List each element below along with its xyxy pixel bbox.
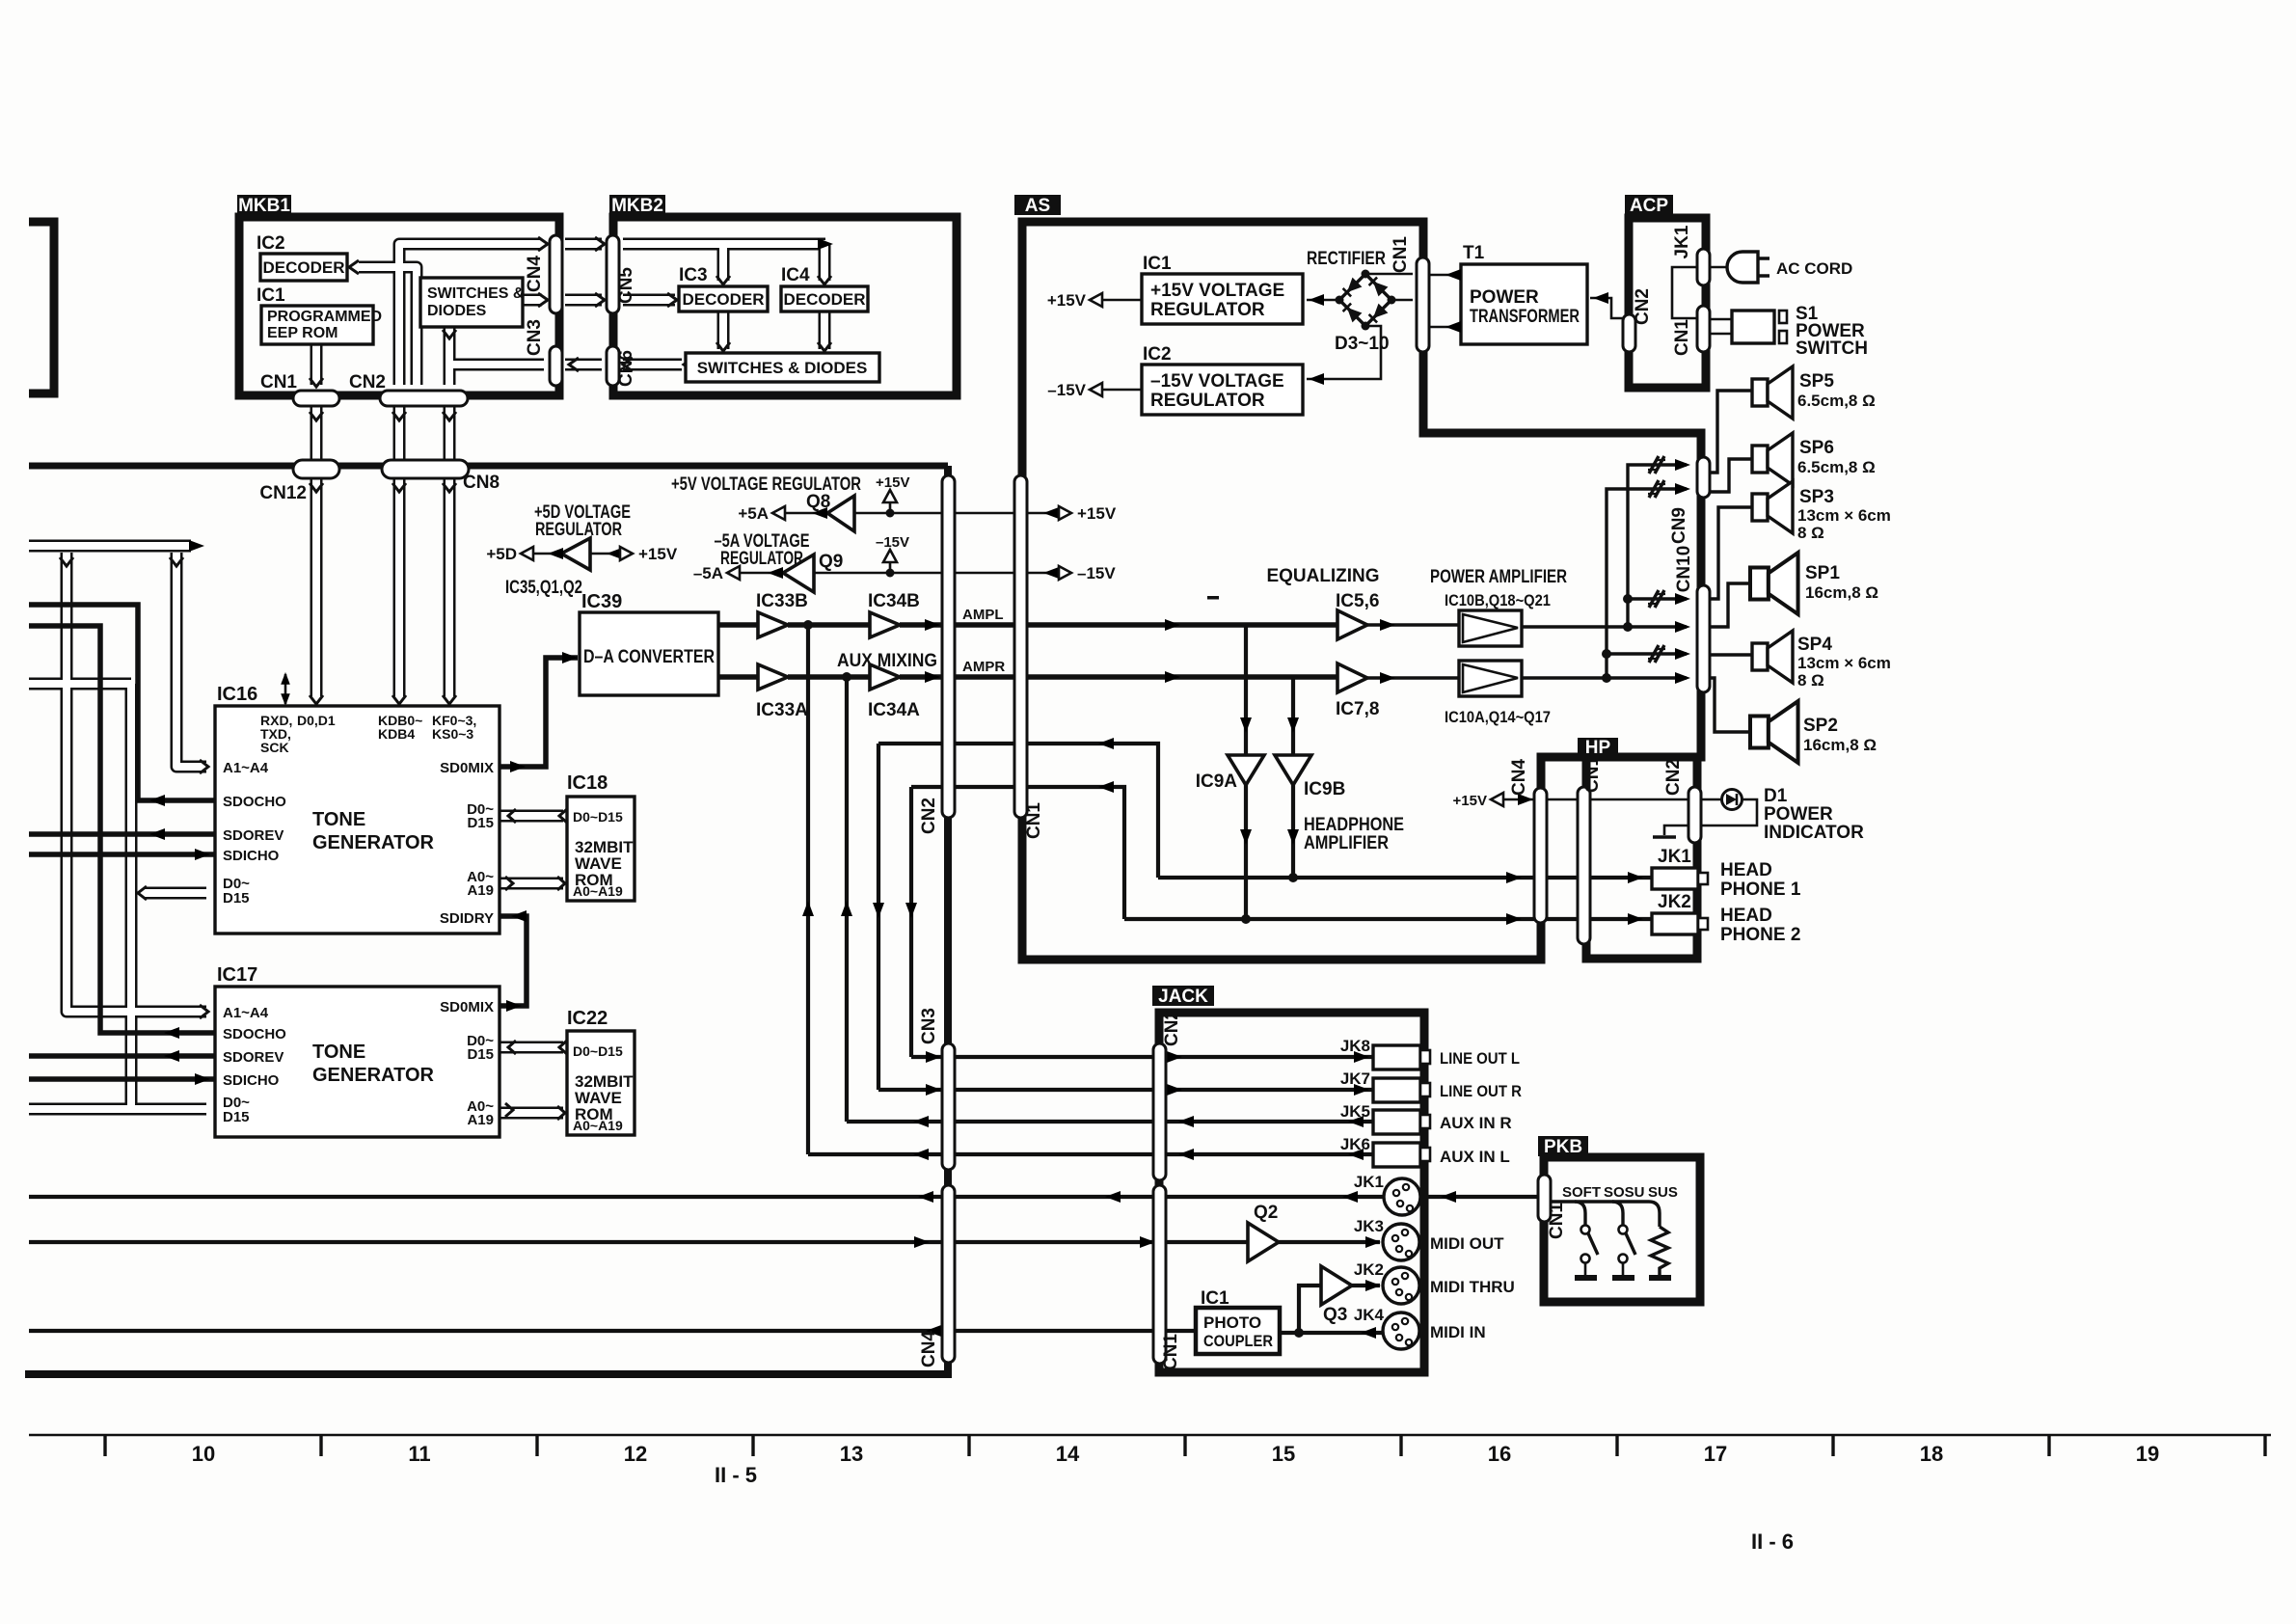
svg-text:SDOCHO: SDOCHO [223, 794, 286, 810]
JACK tag [1152, 986, 1214, 1006]
svg-text:CN4: CN4 [919, 1331, 939, 1367]
SP5 feed wire [1708, 391, 1752, 473]
svg-text:D15: D15 [223, 890, 250, 907]
svg-text:T1: T1 [1463, 243, 1485, 263]
aux in L riser [806, 625, 810, 1154]
ruler tick 14/15 [1183, 1435, 1186, 1456]
connector CN2 capsule (HP) [1688, 787, 1701, 843]
svg-text:+5A: +5A [738, 504, 769, 523]
connector CN1 capsule (JACK) [1153, 1185, 1166, 1364]
IC18 wave rom box [567, 797, 635, 901]
ACP internal wire JK1-CN1 [1672, 267, 1697, 318]
main board bottom edge [25, 1370, 952, 1378]
svg-text:JK1: JK1 [1658, 847, 1691, 867]
svg-text:LINE OUT L: LINE OUT L [1440, 1049, 1520, 1068]
svg-text:SOFT: SOFT [1562, 1184, 1601, 1201]
svg-text:+15V: +15V [876, 474, 909, 491]
bus chevrons below CN12/CN8 [310, 483, 323, 492]
ruler tick 12/13 [751, 1435, 754, 1456]
MKB2 block [613, 217, 957, 395]
ruler baseline [29, 1434, 2271, 1437]
svg-text:IC16: IC16 [217, 684, 257, 705]
SP1 feed wire [1708, 583, 1750, 627]
svg-text:CN2: CN2 [1162, 1010, 1182, 1046]
svg-text:A19: A19 [467, 1112, 494, 1128]
svg-text:13cm × 6cm: 13cm × 6cm [1797, 654, 1891, 672]
main board top edge [29, 463, 948, 470]
bus chevrons D0/A0 buses [508, 809, 516, 823]
svg-text:COUPLER: COUPLER [1203, 1332, 1273, 1350]
svg-text:SP3: SP3 [1799, 487, 1834, 507]
wire RXD TXD SCK stub [284, 674, 287, 704]
wire line-out L return row [911, 787, 1124, 919]
regulator IC35,Q1,Q2 triangle [561, 538, 590, 570]
HP ground stub [1664, 826, 1688, 835]
svg-text:19: 19 [2136, 1442, 2159, 1466]
row MIDI IN [29, 1329, 1199, 1333]
chevrons MKB row 311 [538, 293, 548, 307]
line out R dropper [877, 744, 880, 1090]
svg-text:–15V: –15V [1077, 564, 1116, 582]
svg-text:SP4: SP4 [1797, 635, 1832, 655]
svg-text:AMPL: AMPL [962, 607, 1004, 623]
svg-text:IC10A,Q14~Q17: IC10A,Q14~Q17 [1445, 708, 1551, 726]
svg-text:15: 15 [1272, 1442, 1295, 1466]
svg-text:IC2: IC2 [1143, 344, 1172, 365]
line out L dropper [909, 787, 913, 1057]
soft switch [1575, 1202, 1585, 1225]
wire SDOCHO IC16 from page-left [29, 605, 214, 800]
bus: CN5 to IC3 [623, 294, 675, 307]
svg-text:SP2: SP2 [1803, 716, 1838, 736]
chevrons IC3/IC4 to switches [716, 342, 730, 351]
ACP block [1629, 218, 1706, 388]
MKB bus outlines (white) [359, 244, 825, 385]
svg-text:IC39: IC39 [581, 591, 622, 612]
Q3 feed from midi in [1299, 1286, 1321, 1333]
svg-text:MIDI IN: MIDI IN [1430, 1323, 1486, 1341]
svg-text:SDOREV: SDOREV [223, 827, 284, 844]
svg-text:AMPLIFIER: AMPLIFIER [1304, 833, 1389, 853]
svg-text:16cm,8 Ω: 16cm,8 Ω [1803, 736, 1877, 754]
bus chevrons MKB row 253 [538, 237, 548, 251]
svg-text:8 Ω: 8 Ω [1797, 524, 1824, 542]
row JK7 line out R [878, 1088, 1373, 1092]
svg-text:RECTIFIER: RECTIFIER [1307, 249, 1386, 269]
bus: switches&diodes down bus [444, 327, 456, 385]
-5A output [740, 572, 783, 575]
ruler tick 9/10 [103, 1435, 106, 1456]
svg-text:AS: AS [1025, 196, 1050, 216]
svg-text:GENERATOR: GENERATOR [312, 832, 434, 853]
svg-text:DECODER: DECODER [682, 290, 764, 309]
connector CN2 capsule (ACP) [1623, 314, 1635, 352]
wire SDOREV IC17 [29, 1053, 214, 1059]
connector CN1 capsule (AS left) [1014, 475, 1027, 818]
Q9 triangle [783, 555, 814, 592]
svg-text:IC3: IC3 [679, 265, 708, 285]
bus chevrons below CN1/CN2 [310, 412, 323, 420]
svg-text:CN4: CN4 [1509, 759, 1529, 796]
svg-text:10: 10 [192, 1442, 215, 1466]
ruler tick right [2263, 1435, 2266, 1456]
svg-text:D0,D1: D0,D1 [297, 713, 336, 728]
svg-text:6.5cm,8 Ω: 6.5cm,8 Ω [1797, 458, 1876, 476]
svg-text:A0~A19: A0~A19 [573, 883, 623, 899]
svg-text:CN1: CN1 [1161, 1334, 1181, 1370]
svg-text:IC33A: IC33A [756, 700, 808, 720]
speaker branch riser B [1607, 489, 1687, 678]
IC16 tone generator box [215, 706, 500, 934]
svg-text:D15: D15 [223, 1109, 250, 1125]
svg-text:13: 13 [840, 1442, 863, 1466]
wire Q8 to +15V rail [854, 512, 1051, 515]
+15V feed to HP [1503, 798, 1688, 801]
svg-text:D–A CONVERTER: D–A CONVERTER [583, 647, 715, 667]
svg-text:IC35,Q1,Q2: IC35,Q1,Q2 [505, 578, 582, 598]
wire headphone 1 row [1158, 876, 1652, 880]
svg-text:12: 12 [624, 1442, 647, 1466]
svg-text:CN3: CN3 [919, 1008, 939, 1044]
svg-text:+15V VOLTAGE: +15V VOLTAGE [1150, 281, 1284, 301]
MKB2 top bus pointed end [818, 238, 833, 250]
svg-text:SDICHO: SDICHO [223, 1072, 280, 1089]
svg-text:D0~D15: D0~D15 [573, 809, 623, 825]
power switch wires [1710, 319, 1732, 334]
bus pointed ends at IC16 top [310, 695, 323, 704]
svg-text:D15: D15 [467, 1046, 494, 1063]
svg-text:8 Ω: 8 Ω [1797, 671, 1824, 690]
-15V rail output [1059, 566, 1071, 580]
+5D output [533, 553, 561, 555]
svg-text:AUX IN L: AUX IN L [1440, 1148, 1510, 1166]
bus: vbus1 to IC17 A1~A4 [67, 553, 206, 1012]
svg-text:SP1: SP1 [1805, 563, 1840, 583]
-15V feed symbol [883, 550, 897, 562]
bus arrow: top bus pointed end [189, 540, 204, 552]
svg-text:IC34B: IC34B [868, 591, 920, 611]
bus: IC16-IC18 D0~D15 [500, 810, 563, 823]
SP2 speaker [1750, 701, 1798, 763]
SP6 speaker [1752, 433, 1793, 485]
svg-text:REGULATOR: REGULATOR [1150, 300, 1265, 320]
svg-text:16: 16 [1488, 1442, 1511, 1466]
svg-text:II - 5: II - 5 [715, 1463, 757, 1487]
svg-text:CN5: CN5 [616, 267, 636, 304]
svg-text:POWER: POWER [1764, 804, 1833, 825]
HP block [1586, 757, 1697, 959]
svg-text:MKB1: MKB1 [238, 196, 290, 216]
ruler tick 10/11 [319, 1435, 322, 1456]
svg-text:TONE: TONE [312, 809, 365, 830]
SP3 feed wire [1708, 507, 1752, 599]
rectifier wire to IC2 [1307, 326, 1381, 379]
row MIDI OUT [29, 1240, 1248, 1244]
bus: switches&diodes to CN4 [523, 294, 542, 307]
wire SDOCHO IC17 from page-left [29, 626, 214, 1033]
svg-text:IC17: IC17 [217, 964, 257, 986]
bus: IC4 to switches [819, 311, 831, 349]
svg-text:HEAD: HEAD [1720, 906, 1772, 926]
bus: IC3 to switches [717, 311, 730, 349]
svg-text:EQUALIZING: EQUALIZING [1267, 566, 1380, 586]
bus: IC16-IC18 A0~A19 [500, 878, 563, 890]
+15V input to +5D regulator [590, 553, 620, 555]
left block closing bracket [29, 222, 54, 393]
main board right edge [944, 466, 952, 1374]
ruler tick 11/12 [535, 1435, 538, 1456]
IC10A power amp [1459, 661, 1522, 696]
svg-text:JK7: JK7 [1340, 1069, 1370, 1088]
wire SDOREV IC16 [29, 831, 214, 837]
svg-text:CN1: CN1 [1024, 802, 1044, 839]
svg-text:GENERATOR: GENERATOR [312, 1065, 434, 1086]
svg-text:SP6: SP6 [1799, 438, 1834, 458]
svg-text:IC9A: IC9A [1196, 771, 1238, 792]
svg-text:Q9: Q9 [819, 552, 843, 572]
wire SDOMIX IC17 to SDIDRY [500, 916, 527, 1006]
svg-text:INDICATOR: INDICATOR [1764, 823, 1864, 843]
svg-text:PHONE 2: PHONE 2 [1720, 925, 1800, 945]
svg-text:–15V: –15V [1047, 381, 1086, 399]
connector CN12 capsule [293, 460, 339, 478]
+15V rail output [1059, 506, 1071, 520]
speaker branch riser A [1628, 465, 1687, 627]
svg-text:LINE OUT R: LINE OUT R [1440, 1082, 1522, 1100]
svg-text:CN2: CN2 [919, 798, 939, 834]
Q8 triangle [827, 496, 854, 531]
MKB2 tag [609, 195, 665, 215]
wire SDICHO IC17 [29, 1076, 214, 1082]
wire line-out R return row [878, 744, 1158, 878]
D-A converter box IC39 [580, 612, 718, 695]
svg-text:–5A: –5A [693, 564, 723, 582]
svg-text:PKB: PKB [1544, 1137, 1582, 1157]
svg-text:CN3: CN3 [525, 319, 545, 356]
+15V feed symbol [883, 490, 897, 502]
svg-text:+5D: +5D [486, 545, 517, 563]
svg-text:IC10B,Q18~Q21: IC10B,Q18~Q21 [1445, 591, 1551, 609]
aux in R riser [845, 677, 849, 1122]
svg-text:IC9B: IC9B [1304, 779, 1345, 799]
ruler tick 18/19 [2047, 1435, 2050, 1456]
svg-text:DECODER: DECODER [262, 258, 344, 277]
connector CN8 capsule [382, 460, 469, 478]
svg-text:JK1: JK1 [1672, 225, 1692, 258]
svg-text:CN2: CN2 [1663, 759, 1684, 796]
svg-text:SOSU: SOSU [1604, 1184, 1645, 1201]
svg-text:SCK: SCK [260, 740, 289, 755]
connector CN4 capsule (main) [942, 1185, 955, 1363]
svg-text:A1~A4: A1~A4 [223, 760, 269, 776]
svg-text:SD0MIX: SD0MIX [440, 999, 494, 1015]
bus: page-left D0~D15 bus to IC17 [29, 678, 131, 690]
svg-text:IC7,8: IC7,8 [1336, 699, 1379, 719]
bus: D0~D15 stub to IC16 [145, 887, 206, 900]
svg-text:CN2: CN2 [1633, 288, 1653, 325]
svg-text:CN4: CN4 [525, 256, 545, 292]
svg-text:18: 18 [1920, 1442, 1943, 1466]
rectifier wire to IC1 [1307, 299, 1339, 302]
ruler tick 13/14 [967, 1435, 970, 1456]
svg-text:SDOCHO: SDOCHO [223, 1026, 286, 1042]
svg-text:DECODER: DECODER [783, 290, 865, 309]
svg-text:A19: A19 [467, 882, 494, 899]
svg-text:AMPR: AMPR [962, 659, 1005, 675]
svg-text:JK1: JK1 [1354, 1173, 1384, 1191]
connector CN3 capsule (MKB1) [550, 346, 562, 386]
svg-text:AUX IN R: AUX IN R [1440, 1114, 1512, 1132]
svg-text:CN12: CN12 [259, 483, 307, 503]
connector CN9 capsule [1697, 457, 1710, 498]
svg-text:13cm × 6cm: 13cm × 6cm [1797, 506, 1891, 525]
svg-text:SDOREV: SDOREV [223, 1049, 284, 1066]
wire SDICHO IC16 [29, 852, 214, 857]
wire midi in jack to photocoupler [1280, 1331, 1383, 1335]
svg-text:+5V VOLTAGE REGULATOR: +5V VOLTAGE REGULATOR [671, 474, 861, 495]
bus: CN3 row [449, 359, 544, 371]
svg-text:SUS: SUS [1648, 1184, 1678, 1201]
svg-text:SP5: SP5 [1799, 371, 1834, 392]
svg-text:IC1: IC1 [1143, 254, 1172, 274]
S1 power switch [1732, 311, 1774, 343]
bus: CN2 to IC16 KDB [393, 406, 406, 696]
connector CN2 capsule (main) [942, 475, 955, 818]
connector CN4 capsule (AS bottom) [1534, 788, 1547, 923]
ruler tick 15/16 [1399, 1435, 1402, 1456]
svg-text:REGULATOR: REGULATOR [535, 520, 622, 540]
SP5 speaker [1752, 366, 1793, 419]
svg-text:IC2: IC2 [257, 233, 285, 254]
svg-text:JK2: JK2 [1354, 1260, 1384, 1279]
svg-text:MKB2: MKB2 [611, 196, 663, 216]
bus chevron vbus1 top [60, 557, 73, 566]
wire Q9 to -15V rail [814, 572, 1051, 575]
svg-text:HEADPHONE: HEADPHONE [1304, 815, 1404, 835]
connector CN6 capsule (MKB2) [607, 346, 619, 386]
row JK1 to PKB [29, 1195, 1385, 1199]
row JK6 aux in L [808, 1152, 1373, 1156]
AC cord plug [1727, 252, 1758, 283]
svg-text:IC5,6: IC5,6 [1336, 591, 1379, 611]
IC9A headphone amp [1228, 755, 1264, 785]
AC cord wire [1710, 266, 1734, 269]
IC9B feed [1291, 677, 1295, 878]
IC9B headphone amp [1275, 755, 1311, 785]
IC22 wave rom box [567, 1031, 635, 1135]
SP2 feed wire [1708, 678, 1752, 732]
svg-text:CN1: CN1 [1582, 756, 1603, 793]
svg-text:CN2: CN2 [349, 372, 386, 392]
svg-text:REGULATOR: REGULATOR [1150, 391, 1265, 411]
svg-text:SD0MIX: SD0MIX [440, 760, 494, 776]
connector CN2 capsule (MKB1) [380, 391, 468, 406]
svg-text:POWER AMPLIFIER: POWER AMPLIFIER [1430, 567, 1567, 587]
bus chevron into IC17 A1~A4 [200, 1005, 208, 1018]
svg-text:Q3: Q3 [1323, 1305, 1347, 1325]
svg-text:HEAD: HEAD [1720, 860, 1772, 880]
row JK8 line out L [911, 1055, 1373, 1059]
svg-text:II - 6: II - 6 [1751, 1529, 1794, 1554]
svg-text:CN8: CN8 [463, 473, 500, 493]
svg-text:SDICHO: SDICHO [223, 848, 280, 864]
ruler tick 16/17 [1615, 1435, 1618, 1456]
SP4 feed wire [1708, 653, 1752, 656]
connector CN1 capsule (MKB1) [293, 391, 339, 406]
svg-text:PROGRAMMED: PROGRAMMED [267, 309, 382, 325]
+5A output [785, 512, 827, 515]
svg-text:+15V: +15V [1077, 504, 1117, 523]
sosu switch [1612, 1202, 1623, 1225]
svg-text:HP: HP [1585, 738, 1611, 758]
rectifier wires to CN1 [1365, 273, 1413, 276]
MKB1 block [239, 217, 559, 395]
svg-text:KS0~3: KS0~3 [432, 726, 473, 742]
svg-text:MIDI THRU: MIDI THRU [1430, 1278, 1515, 1296]
connector CN4 capsule (MKB1) [550, 235, 562, 313]
svg-text:JK8: JK8 [1340, 1037, 1370, 1055]
svg-text:PHONE 1: PHONE 1 [1720, 880, 1801, 900]
svg-text:CN1: CN1 [1391, 236, 1411, 273]
MKB1 switches & diodes [420, 278, 523, 327]
AS block border [1022, 222, 1701, 960]
svg-text:CN1: CN1 [1547, 1203, 1567, 1239]
bus: decoder bus [359, 267, 417, 385]
svg-text:SWITCH: SWITCH [1796, 338, 1868, 359]
bus: MKB2 top bus [623, 238, 825, 251]
svg-text:JK6: JK6 [1340, 1135, 1370, 1153]
bus: EEPROM to CN1 [311, 344, 323, 385]
connector JK1 capsule (ACP) [1697, 249, 1710, 285]
svg-text:JK2: JK2 [1658, 892, 1691, 912]
chevrons into IC3/IC4 [716, 276, 730, 284]
svg-text:IC34A: IC34A [868, 700, 920, 720]
svg-text:SWITCHES & DIODES: SWITCHES & DIODES [697, 359, 868, 377]
svg-text:14: 14 [1056, 1442, 1080, 1466]
svg-text:+15V: +15V [1047, 291, 1087, 310]
AMPR wire to equalizer [788, 674, 870, 680]
bus: vbus2 to IC16 A1~A4 [176, 553, 206, 767]
bus: CN1 to IC16 D0,D1 [311, 406, 323, 696]
connector CN3 capsule (main) [942, 1043, 955, 1170]
bus: CN6 to switches [623, 359, 682, 371]
sus resistor [1651, 1227, 1668, 1275]
connector CN1 capsule (AS top) [1417, 257, 1429, 352]
AMPL wire to equalizer [788, 622, 870, 628]
svg-text:CN10: CN10 [1674, 546, 1694, 593]
bus: branch to IC3 [717, 244, 730, 281]
svg-text:17: 17 [1704, 1442, 1727, 1466]
rectifier bridge D3~10 [1339, 274, 1391, 326]
junction dot AMPL [803, 620, 813, 630]
svg-text:–15V VOLTAGE: –15V VOLTAGE [1150, 371, 1284, 392]
wire headphone 2 row [1124, 917, 1652, 921]
svg-text:AUX MIXING: AUX MIXING [837, 651, 937, 671]
wire SDOMIX IC16 to D-A [500, 658, 578, 767]
PKB block [1544, 1157, 1700, 1302]
svg-text:CN1: CN1 [1672, 319, 1692, 356]
chevron below MKB1 switches box [443, 330, 456, 338]
SP1 speaker [1750, 553, 1798, 614]
svg-text:DIODES: DIODES [427, 303, 487, 319]
bus: top-left wide bus [29, 540, 191, 553]
bus: IC17-IC22 D0~D15 [500, 1042, 563, 1054]
svg-text:TONE: TONE [312, 1042, 365, 1063]
IC9A feed [1244, 625, 1248, 919]
MKB1 tag [237, 195, 291, 215]
connector CN2 capsule (JACK) [1153, 1043, 1166, 1180]
JACK block [1159, 1013, 1424, 1372]
